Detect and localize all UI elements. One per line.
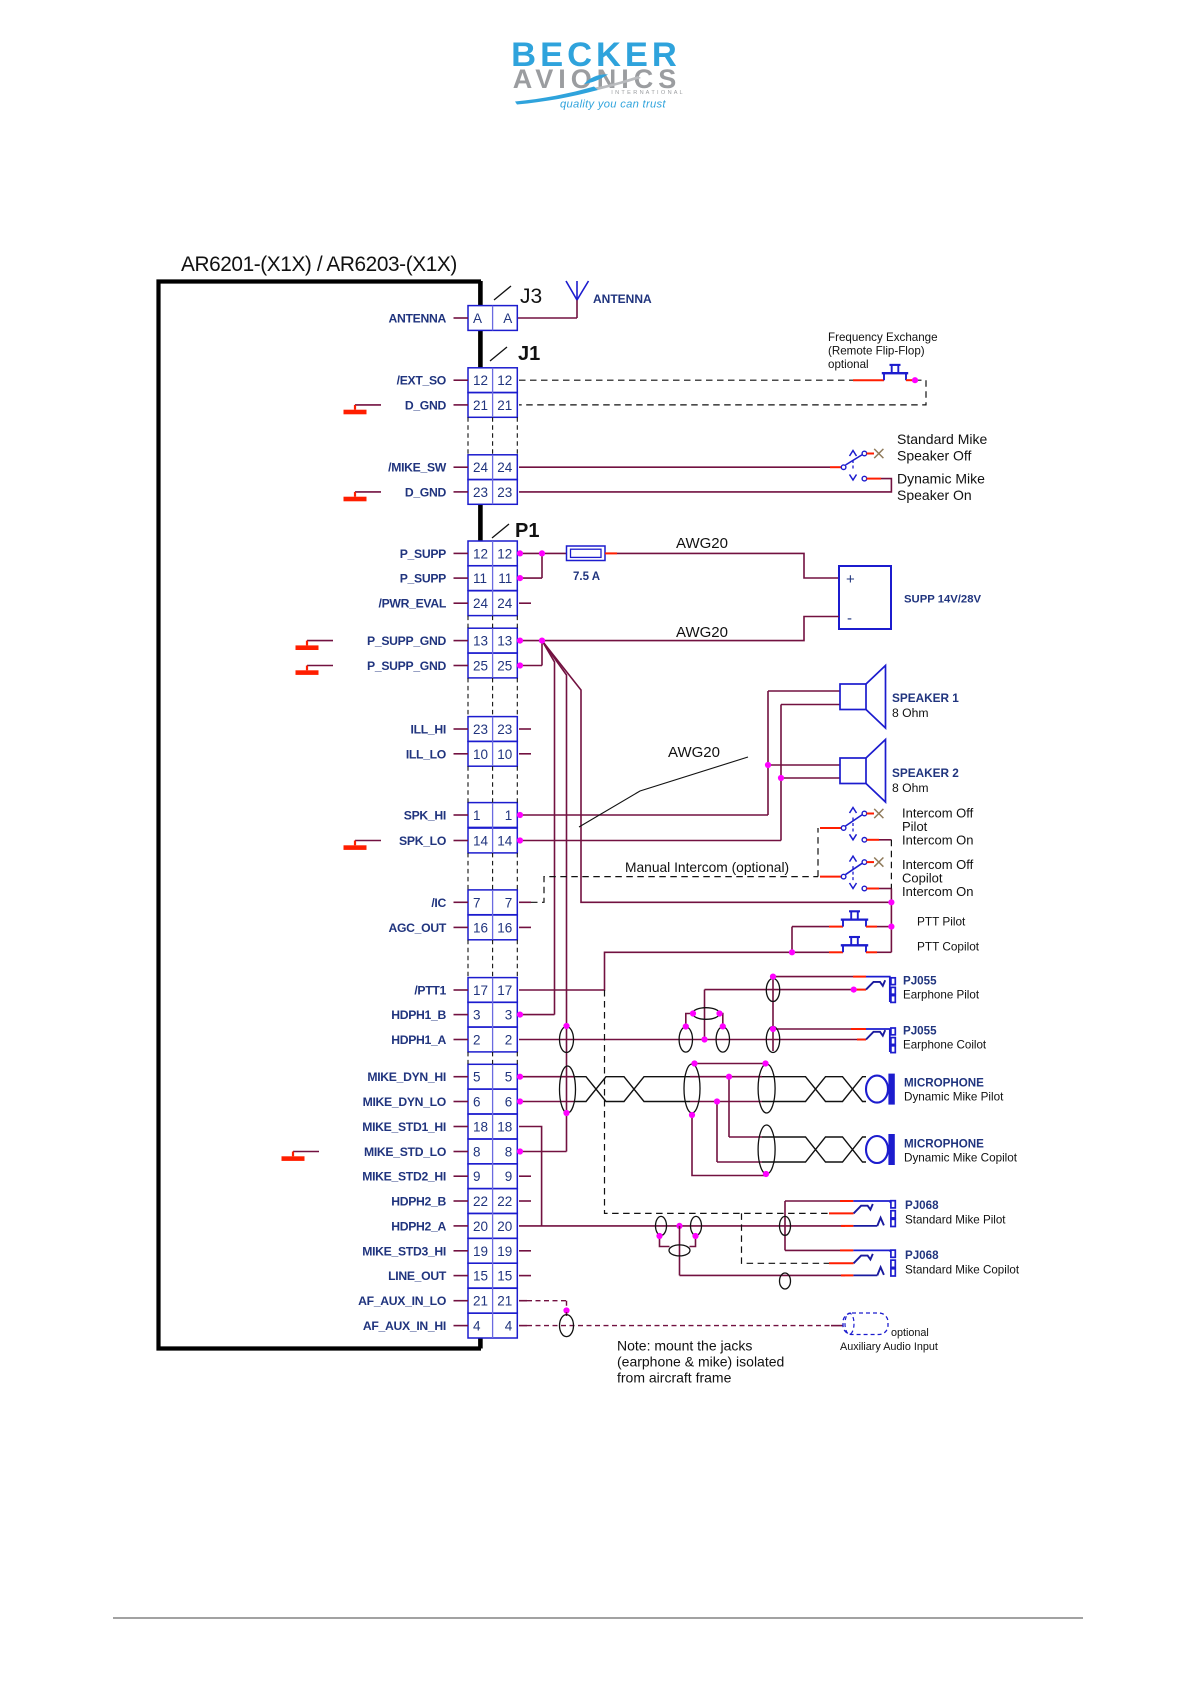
svg-text:D_GND: D_GND <box>405 485 447 499</box>
svg-text:Standard Mike Copilot: Standard Mike Copilot <box>905 1264 1020 1277</box>
svg-text:Intercom On: Intercom On <box>902 884 974 899</box>
svg-text:AWG20: AWG20 <box>676 535 728 552</box>
svg-text:25: 25 <box>497 659 512 674</box>
svg-text:MICROPHONE: MICROPHONE <box>904 1138 984 1151</box>
svg-text:SPEAKER 1: SPEAKER 1 <box>892 691 959 705</box>
svg-text:9: 9 <box>473 1169 481 1184</box>
svg-text:MIKE_STD2_HI: MIKE_STD2_HI <box>362 1170 446 1184</box>
svg-text:9: 9 <box>505 1169 513 1184</box>
svg-text:8 Ohm: 8 Ohm <box>892 781 929 795</box>
svg-text:(earphone & mike) isolated: (earphone & mike) isolated <box>617 1354 784 1370</box>
svg-text:21: 21 <box>497 398 512 413</box>
svg-text:MIKE_DYN_LO: MIKE_DYN_LO <box>363 1095 446 1109</box>
svg-text:AGC_OUT: AGC_OUT <box>389 921 447 935</box>
svg-text:16: 16 <box>473 920 488 935</box>
svg-text:7.5 A: 7.5 A <box>573 571 600 583</box>
svg-text:6: 6 <box>505 1095 513 1110</box>
svg-text:J1: J1 <box>518 343 540 365</box>
svg-text:P_SUPP_GND: P_SUPP_GND <box>367 659 446 673</box>
svg-text:21: 21 <box>473 1294 488 1309</box>
svg-text:SUPP 14V/28V: SUPP 14V/28V <box>904 594 982 606</box>
svg-text:6: 6 <box>473 1095 481 1110</box>
svg-text:/MIKE_SW: /MIKE_SW <box>388 461 447 475</box>
svg-text:4: 4 <box>505 1319 513 1334</box>
svg-text:Intercom On: Intercom On <box>902 833 974 848</box>
svg-text:24: 24 <box>473 596 489 611</box>
svg-text:8 Ohm: 8 Ohm <box>892 706 929 720</box>
svg-text:MIKE_STD3_HI: MIKE_STD3_HI <box>362 1244 446 1258</box>
svg-text:3: 3 <box>505 1008 513 1023</box>
svg-text:15: 15 <box>497 1269 512 1284</box>
svg-text:19: 19 <box>497 1244 512 1259</box>
svg-text:(Remote Flip-Flop): (Remote Flip-Flop) <box>828 345 925 358</box>
svg-text:12: 12 <box>473 373 488 388</box>
svg-text:PJ068: PJ068 <box>905 1249 939 1262</box>
svg-text:1: 1 <box>473 808 481 823</box>
svg-text:20: 20 <box>497 1219 512 1234</box>
svg-text:P_SUPP: P_SUPP <box>400 572 446 586</box>
svg-text:7: 7 <box>505 895 513 910</box>
svg-text:SPK_HI: SPK_HI <box>404 809 446 823</box>
svg-text:2: 2 <box>473 1033 481 1048</box>
svg-text:ANTENNA: ANTENNA <box>593 292 652 306</box>
svg-text:12: 12 <box>473 546 488 561</box>
svg-text:10: 10 <box>473 747 488 762</box>
svg-text:13: 13 <box>497 634 512 649</box>
svg-text:11: 11 <box>498 571 512 586</box>
svg-text:/PWR_EVAL: /PWR_EVAL <box>379 597 447 611</box>
svg-text:Standard Mike Pilot: Standard Mike Pilot <box>905 1214 1006 1227</box>
svg-text:1: 1 <box>505 808 513 823</box>
svg-text:17: 17 <box>473 983 488 998</box>
svg-text:2: 2 <box>505 1033 513 1048</box>
svg-text:16: 16 <box>497 920 512 935</box>
svg-text:J3: J3 <box>520 285 542 308</box>
svg-text:ILL_LO: ILL_LO <box>406 747 446 761</box>
svg-text:ANTENNA: ANTENNA <box>389 312 447 326</box>
svg-text:5: 5 <box>505 1070 513 1085</box>
svg-text:+: + <box>846 571 855 588</box>
svg-text:23: 23 <box>473 722 488 737</box>
svg-text:from aircraft frame: from aircraft frame <box>617 1370 732 1386</box>
svg-text:quality you can trust: quality you can trust <box>560 99 666 111</box>
svg-text:PTT Pilot: PTT Pilot <box>917 915 966 929</box>
svg-text:24: 24 <box>497 596 513 611</box>
svg-text:Earphone Pilot: Earphone Pilot <box>903 989 980 1002</box>
svg-text:15: 15 <box>473 1269 488 1284</box>
svg-text:Manual Intercom (optional): Manual Intercom (optional) <box>625 860 789 875</box>
svg-text:Earphone Coilot: Earphone Coilot <box>903 1039 987 1052</box>
svg-text:SPK_LO: SPK_LO <box>399 834 446 848</box>
svg-text:D_GND: D_GND <box>405 398 447 412</box>
svg-text:12: 12 <box>497 546 512 561</box>
svg-text:23: 23 <box>497 485 512 500</box>
svg-text:HDPH1_A: HDPH1_A <box>391 1033 446 1047</box>
svg-text:5: 5 <box>473 1070 481 1085</box>
svg-text:MIKE_STD1_HI: MIKE_STD1_HI <box>362 1120 446 1134</box>
svg-text:18: 18 <box>497 1120 512 1135</box>
svg-text:/IC: /IC <box>431 896 446 910</box>
svg-text:AWG20: AWG20 <box>676 624 728 641</box>
svg-text:23: 23 <box>473 485 488 500</box>
svg-text:Dynamic Mike: Dynamic Mike <box>897 471 985 487</box>
svg-text:14: 14 <box>497 834 513 849</box>
svg-text:18: 18 <box>473 1120 488 1135</box>
svg-text:HDPH1_B: HDPH1_B <box>391 1008 446 1022</box>
svg-text:AWG20: AWG20 <box>668 744 720 761</box>
svg-text:optional: optional <box>828 358 869 371</box>
svg-text:HDPH2_A: HDPH2_A <box>391 1219 446 1233</box>
svg-text:22: 22 <box>497 1194 512 1209</box>
svg-text:Standard Mike: Standard Mike <box>897 431 987 447</box>
svg-text:PTT Copilot: PTT Copilot <box>917 940 980 954</box>
svg-text:7: 7 <box>473 895 481 910</box>
svg-text:20: 20 <box>473 1219 488 1234</box>
svg-text:25: 25 <box>473 659 488 674</box>
svg-text:3: 3 <box>473 1008 481 1023</box>
svg-text:Auxiliary Audio Input: Auxiliary Audio Input <box>840 1341 938 1353</box>
svg-text:8: 8 <box>473 1145 481 1160</box>
svg-text:13: 13 <box>473 634 488 649</box>
svg-text:PJ055: PJ055 <box>903 1025 937 1038</box>
svg-text:19: 19 <box>473 1244 488 1259</box>
svg-text:21: 21 <box>473 398 488 413</box>
svg-text:LINE_OUT: LINE_OUT <box>388 1269 447 1283</box>
svg-text:Dynamic Mike Copilot: Dynamic Mike Copilot <box>904 1152 1018 1165</box>
svg-text:/EXT_SO: /EXT_SO <box>397 374 446 388</box>
svg-text:23: 23 <box>497 722 512 737</box>
svg-text:SPEAKER 2: SPEAKER 2 <box>892 766 959 780</box>
svg-text:Speaker Off: Speaker Off <box>897 448 972 464</box>
svg-text:P_SUPP_GND: P_SUPP_GND <box>367 634 446 648</box>
svg-text:MICROPHONE: MICROPHONE <box>904 1077 984 1090</box>
svg-text:PJ068: PJ068 <box>905 1199 939 1212</box>
svg-text:optional: optional <box>891 1327 929 1339</box>
svg-text:4: 4 <box>473 1319 481 1334</box>
svg-text:Dynamic Mike Pilot: Dynamic Mike Pilot <box>904 1091 1004 1104</box>
svg-text:-: - <box>847 610 852 627</box>
svg-text:Speaker On: Speaker On <box>897 487 972 503</box>
svg-text:P1: P1 <box>515 520 539 542</box>
svg-text:24: 24 <box>497 460 513 475</box>
svg-text:17: 17 <box>497 983 512 998</box>
svg-text:8: 8 <box>505 1145 513 1160</box>
svg-text:21: 21 <box>497 1294 512 1309</box>
svg-text:Note: mount the jacks: Note: mount the jacks <box>617 1338 752 1354</box>
svg-text:HDPH2_B: HDPH2_B <box>391 1195 446 1209</box>
svg-text:AF_AUX_IN_HI: AF_AUX_IN_HI <box>363 1319 446 1333</box>
svg-text:PJ055: PJ055 <box>903 975 937 988</box>
svg-text:/PTT1: /PTT1 <box>414 984 446 998</box>
svg-text:11: 11 <box>473 571 487 586</box>
svg-text:I N T E R N A T I O N A L: I N T E R N A T I O N A L <box>611 90 683 96</box>
svg-text:ILL_HI: ILL_HI <box>411 723 446 737</box>
svg-text:14: 14 <box>473 834 489 849</box>
svg-text:12: 12 <box>497 373 512 388</box>
svg-text:A: A <box>473 311 482 326</box>
svg-text:P_SUPP: P_SUPP <box>400 547 446 561</box>
svg-text:MIKE_STD_LO: MIKE_STD_LO <box>364 1145 446 1159</box>
svg-text:AR6201-(X1X) / AR6203-(X1X): AR6201-(X1X) / AR6203-(X1X) <box>181 253 457 276</box>
svg-text:A: A <box>503 311 512 326</box>
svg-text:MIKE_DYN_HI: MIKE_DYN_HI <box>367 1070 446 1084</box>
svg-text:22: 22 <box>473 1194 488 1209</box>
svg-text:Frequency Exchange: Frequency Exchange <box>828 331 938 344</box>
svg-text:24: 24 <box>473 460 489 475</box>
svg-text:10: 10 <box>497 747 512 762</box>
svg-text:AF_AUX_IN_LO: AF_AUX_IN_LO <box>358 1294 446 1308</box>
